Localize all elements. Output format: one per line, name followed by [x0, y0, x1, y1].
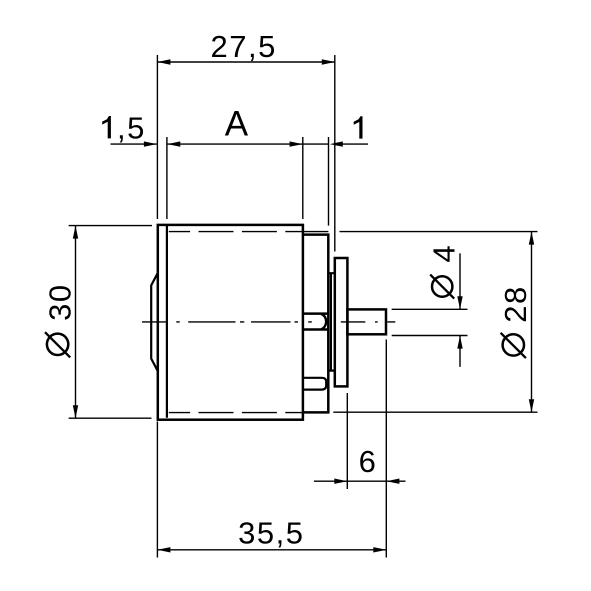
extension line shaft bottom (dia 4): [392, 335, 468, 337]
svg-text:,5: ,5: [117, 110, 146, 145]
label dia 28 (rotated): [498, 285, 533, 358]
end cap inner edge: [166, 226, 168, 418]
dimension line 1 with arrow: [303, 143, 368, 145]
svg-text:27,5: 27,5: [211, 29, 277, 64]
label 1: [354, 116, 363, 138]
extension line body left face top: [156, 55, 158, 219]
extension line dia 28 bottom: [333, 411, 537, 413]
dimension line 35,5 with arrows: [157, 549, 386, 551]
shaft (diameter 4): [347, 309, 386, 334]
dimension line dia 28 with arrows: [531, 232, 533, 413]
extension line flange right face: [346, 393, 348, 489]
label dia 30 (rotated): [42, 283, 77, 357]
svg-text:4: 4: [426, 244, 461, 263]
extension line shaft top (dia 4): [392, 308, 468, 310]
extension line body bottom (dia 30): [69, 417, 152, 419]
dimension line 1,5 with arrow: [111, 143, 157, 145]
svg-text:30: 30: [42, 283, 77, 320]
svg-text:6: 6: [359, 444, 378, 479]
step thin top edge (diameter 28 reference): [303, 231, 329, 233]
hidden dashed line top: [169, 231, 303, 233]
label 1,5: [102, 116, 111, 138]
extension line body right face: [302, 137, 304, 219]
rear bulge with chamfers: [151, 273, 157, 370]
label dia 4 (rotated): [426, 244, 461, 299]
motor body outline (diameter 30 can): [158, 225, 303, 420]
extension line flange left face: [334, 55, 336, 252]
hidden dashed line bottom: [169, 412, 303, 414]
gearbox step outline: [303, 235, 329, 413]
svg-text:A: A: [225, 105, 250, 144]
hub edges: [303, 314, 329, 330]
dimension line 6 with arrows: [314, 480, 406, 482]
extension line body top (dia 30): [69, 225, 152, 227]
svg-text:28: 28: [498, 285, 533, 322]
extension line dia 28 top: [340, 231, 538, 233]
dimension line dia 30 with arrows: [75, 226, 77, 419]
flange disc: [335, 258, 348, 386]
extension line end cap inner face: [166, 137, 168, 219]
dimension line A with arrows: [167, 143, 302, 145]
bottom boss: [303, 378, 326, 390]
centerline (dash-dot): [142, 321, 395, 323]
svg-text:35,5: 35,5: [238, 515, 304, 550]
dimension lines dia 4 with arrows: [459, 253, 461, 367]
dimension line 27,5 with arrows: [157, 61, 334, 63]
hub end arc: [321, 314, 326, 329]
extension line body left face bottom: [156, 422, 158, 558]
extension line step right face: [328, 137, 330, 226]
extension line shaft end: [385, 340, 387, 558]
pilot boss edges: [328, 273, 335, 370]
